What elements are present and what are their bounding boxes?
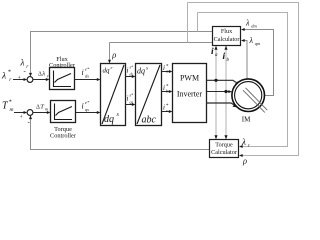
svg-text:ds: ds	[85, 74, 89, 79]
dq-e to dq-s block	[101, 64, 126, 126]
svg-text:e*: e*	[85, 67, 90, 72]
wire: i_b measurement vertical	[225, 46, 227, 140]
label i_a measurement	[211, 47, 218, 58]
arrowhead torque feedback up into torque junction	[29, 115, 32, 119]
summing junction flux	[27, 77, 33, 83]
svg-text:Inverter: Inverter	[177, 89, 203, 98]
svg-text:λ: λ	[245, 19, 250, 28]
label delta T_m	[36, 104, 49, 112]
wire: flux controller output	[75, 79, 98, 81]
svg-text:IM: IM	[242, 116, 251, 124]
svg-text:ρ: ρ	[111, 50, 116, 60]
svg-text:λ: λ	[41, 71, 45, 78]
svg-text:Torque: Torque	[215, 142, 233, 149]
label i_ds s* between blocks	[127, 65, 134, 77]
torque controller box	[51, 101, 76, 123]
svg-text:e: e	[111, 65, 113, 70]
arrowhead i_b down into torque calculator	[224, 135, 227, 139]
label Torque Calculator	[211, 142, 237, 157]
svg-text:i: i	[127, 67, 129, 75]
svg-text:λ: λ	[249, 36, 254, 45]
arrowhead lambda_dm into flux calculator	[241, 28, 245, 31]
junction dot i_a tap	[214, 79, 217, 82]
wire: lambda_dm from motor right to flux calculator	[244, 30, 274, 96]
arrowhead rho into torque calculator	[239, 154, 243, 157]
label i_ds e* (flux controller output)	[82, 67, 90, 79]
svg-text:ρ: ρ	[242, 156, 247, 166]
wire: phase b to motor	[207, 91, 229, 93]
label i_b measurement	[223, 52, 230, 63]
svg-text:ds: ds	[130, 72, 134, 77]
arrowhead lambda_r down into flux junction	[29, 73, 32, 77]
arrowhead i_a down into torque calculator	[214, 135, 217, 139]
svg-text:i: i	[82, 68, 84, 77]
arrowhead rho down into dq block	[108, 60, 111, 64]
svg-text:Controller: Controller	[50, 133, 77, 140]
label lambda_qm	[249, 36, 261, 46]
arrowhead i_a up into flux calculator	[214, 46, 217, 50]
wire: lambda_r feedback line (top left horizontal)	[30, 32, 213, 74]
svg-text:m: m	[10, 107, 14, 113]
dq-s to abc block	[136, 64, 162, 126]
label Flux Controller	[49, 56, 76, 69]
svg-text:Flux: Flux	[221, 28, 233, 35]
wire: outer top loop (rho to torque calculator)	[188, 3, 299, 156]
label dq^s in block1	[104, 112, 120, 125]
svg-text:s*: s*	[130, 93, 134, 98]
label delta lambda_r	[38, 71, 49, 79]
wire: ib* to PWM	[162, 91, 170, 93]
wire: i_a measurement vertical	[215, 46, 217, 140]
flux calculator box	[213, 27, 241, 46]
motor shaft	[243, 88, 267, 113]
wire: iqs s between blocks	[126, 104, 133, 106]
torque calculator box	[210, 140, 239, 158]
label i_c*	[163, 104, 169, 114]
svg-text:i: i	[223, 52, 226, 62]
PWM inverter box	[173, 64, 207, 123]
wire: lambda_qm from motor top to flux calculator	[244, 41, 247, 79]
induction motor	[232, 79, 265, 112]
svg-text:abc: abc	[142, 115, 157, 126]
label dq^s in block2	[137, 67, 148, 76]
arrowhead lambda_r into torque calculator	[239, 145, 243, 148]
svg-text:r: r	[47, 74, 49, 79]
label T*_m input	[2, 100, 14, 114]
svg-text:s*: s*	[130, 65, 134, 70]
svg-text:e*: e*	[85, 100, 90, 105]
summing junction torque	[27, 110, 33, 116]
svg-text:c: c	[166, 108, 168, 113]
label i_qs e* (torque controller output)	[82, 100, 90, 112]
arrowhead lambda_qm into flux calculator	[241, 39, 245, 42]
junction dot i_b tap	[224, 90, 227, 93]
label i_a*	[163, 64, 169, 74]
arrowhead into flux junction	[24, 78, 28, 81]
svg-text:*: *	[8, 70, 11, 76]
wire: lambda_r tap up to inner loop	[197, 13, 199, 32]
label lambda_r at torque calculator	[241, 137, 250, 149]
svg-text:dq: dq	[103, 67, 111, 75]
svg-text:λ: λ	[241, 137, 246, 147]
wire: ids s between blocks	[126, 76, 133, 78]
label Torque Controller	[50, 126, 77, 140]
svg-text:Calculator: Calculator	[211, 149, 237, 156]
svg-text:i: i	[163, 64, 165, 72]
label dq^e in block1	[103, 65, 113, 75]
label PWM Inverter	[177, 73, 203, 98]
svg-text:qs: qs	[130, 100, 134, 105]
svg-text:dm: dm	[251, 24, 257, 29]
label i_qs s* between blocks	[127, 93, 134, 105]
svg-text:qs: qs	[85, 107, 89, 112]
svg-text:Calculator: Calculator	[214, 36, 240, 43]
svg-text:λ: λ	[20, 58, 25, 68]
wire: delta lambda to flux controller	[33, 79, 46, 81]
svg-text:i: i	[211, 47, 214, 57]
wire: torque feedback from torque calculator to torque junction	[31, 116, 210, 150]
svg-text:i: i	[127, 95, 129, 103]
svg-text:λ: λ	[1, 72, 6, 82]
wire: ic* to PWM	[162, 111, 170, 113]
svg-text:dq: dq	[137, 67, 145, 76]
svg-text:dq: dq	[104, 114, 114, 125]
wire: phase a to motor	[207, 80, 236, 82]
label lambda_dm	[245, 19, 257, 29]
svg-text:i: i	[163, 84, 165, 92]
label i_b*	[163, 84, 169, 94]
wire: ia* to PWM	[162, 71, 170, 73]
wire: rho line to dq block	[110, 43, 213, 61]
svg-text:T: T	[40, 104, 44, 111]
svg-text:Controller: Controller	[49, 62, 76, 69]
svg-text:*: *	[9, 100, 12, 106]
svg-text:s: s	[146, 67, 148, 72]
label lambda_r feedback	[20, 58, 30, 71]
wire: inner top loop (lambda_r to torque calculator)	[198, 13, 288, 147]
svg-text:r: r	[248, 144, 250, 149]
svg-text:i: i	[82, 102, 84, 111]
label Flux Calculator	[214, 28, 240, 43]
wire: T* input	[14, 112, 25, 114]
wire: phase c to motor	[207, 103, 234, 105]
wire: rho tap up to outer loop	[187, 3, 189, 43]
wire: delta T to torque controller	[33, 112, 47, 114]
wire: lambda* input	[13, 79, 25, 81]
label lambda*_r input	[1, 70, 12, 84]
wire: torque controller output	[76, 112, 98, 114]
svg-text:i: i	[163, 104, 165, 112]
svg-text:qm: qm	[255, 41, 261, 46]
flux controller box	[50, 68, 75, 90]
svg-text:PWM: PWM	[180, 73, 199, 82]
arrowhead i_b up into flux calculator	[224, 46, 227, 50]
